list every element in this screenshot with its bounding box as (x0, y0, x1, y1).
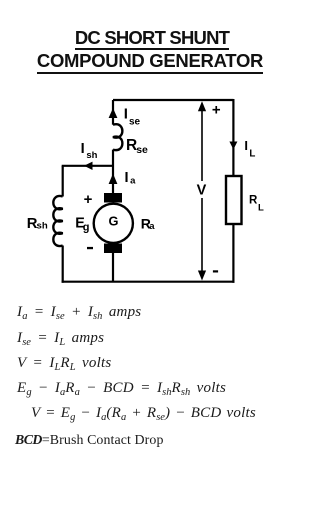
svg-text:I: I (81, 141, 85, 157)
brush top (104, 193, 122, 203)
label I_L (244, 138, 255, 159)
wire right upper (232, 99, 234, 176)
inductor R_se (113, 124, 122, 150)
brush bottom (104, 244, 122, 254)
label R_a (141, 216, 155, 232)
svg-text:I: I (124, 105, 128, 122)
inductor R_sh (53, 196, 62, 246)
svg-text:sh: sh (86, 150, 97, 161)
label - (terminal) (213, 270, 218, 272)
arrow I_sh (84, 162, 93, 170)
wire armature to bottom (112, 253, 114, 282)
label I_a (125, 170, 137, 186)
svg-text:G: G (109, 214, 119, 229)
equation 2 (17, 330, 104, 347)
wire series branch upper (112, 100, 114, 125)
svg-text:I: I (125, 170, 129, 186)
equation 4 (17, 380, 226, 397)
svg-text:+: + (84, 191, 93, 208)
label R_L (249, 195, 264, 214)
generator G armature circle (94, 204, 133, 243)
svg-text:L: L (258, 203, 264, 214)
wire left (shunt branch vertical) (62, 166, 64, 283)
voltage arrow V (double headed) (198, 101, 206, 280)
equation 6 (BCD definition) (15, 432, 164, 449)
wire bottom (62, 281, 235, 283)
wire right lower (232, 224, 234, 283)
wire shunt horizontal (62, 165, 113, 167)
label + (E_g positive) (84, 191, 93, 208)
svg-text:+: + (212, 102, 221, 119)
arrow I_L (229, 142, 237, 150)
svg-text:g: g (83, 222, 90, 234)
svg-text:a: a (130, 175, 136, 186)
wire top (node + rail) (113, 99, 233, 101)
wire series branch to junction and armature (112, 150, 114, 193)
svg-text:se: se (136, 144, 148, 156)
equation 5 (31, 405, 256, 422)
svg-text:se: se (129, 117, 141, 128)
svg-text:a: a (149, 221, 155, 232)
arrow I_se (109, 108, 118, 118)
equation 3 (17, 355, 111, 372)
label - (E_g negative) (87, 247, 93, 249)
svg-text:sh: sh (37, 221, 48, 232)
title line 1 (6, 29, 298, 51)
equation 1 (17, 304, 141, 321)
label R_sh (27, 216, 48, 232)
label E_g (75, 216, 89, 234)
svg-text:I: I (244, 138, 248, 153)
label + (terminal) (212, 102, 221, 119)
svg-text:V: V (197, 182, 207, 198)
resistor R_L (226, 176, 242, 224)
label I_sh (81, 141, 98, 161)
label G (109, 214, 119, 229)
label R_se (126, 137, 148, 156)
svg-text:L: L (249, 149, 255, 160)
arrow I_a (109, 174, 118, 185)
label V (197, 182, 207, 198)
label I_se (124, 105, 141, 127)
svg-text:R: R (249, 195, 258, 207)
title line 2 (4, 52, 296, 74)
